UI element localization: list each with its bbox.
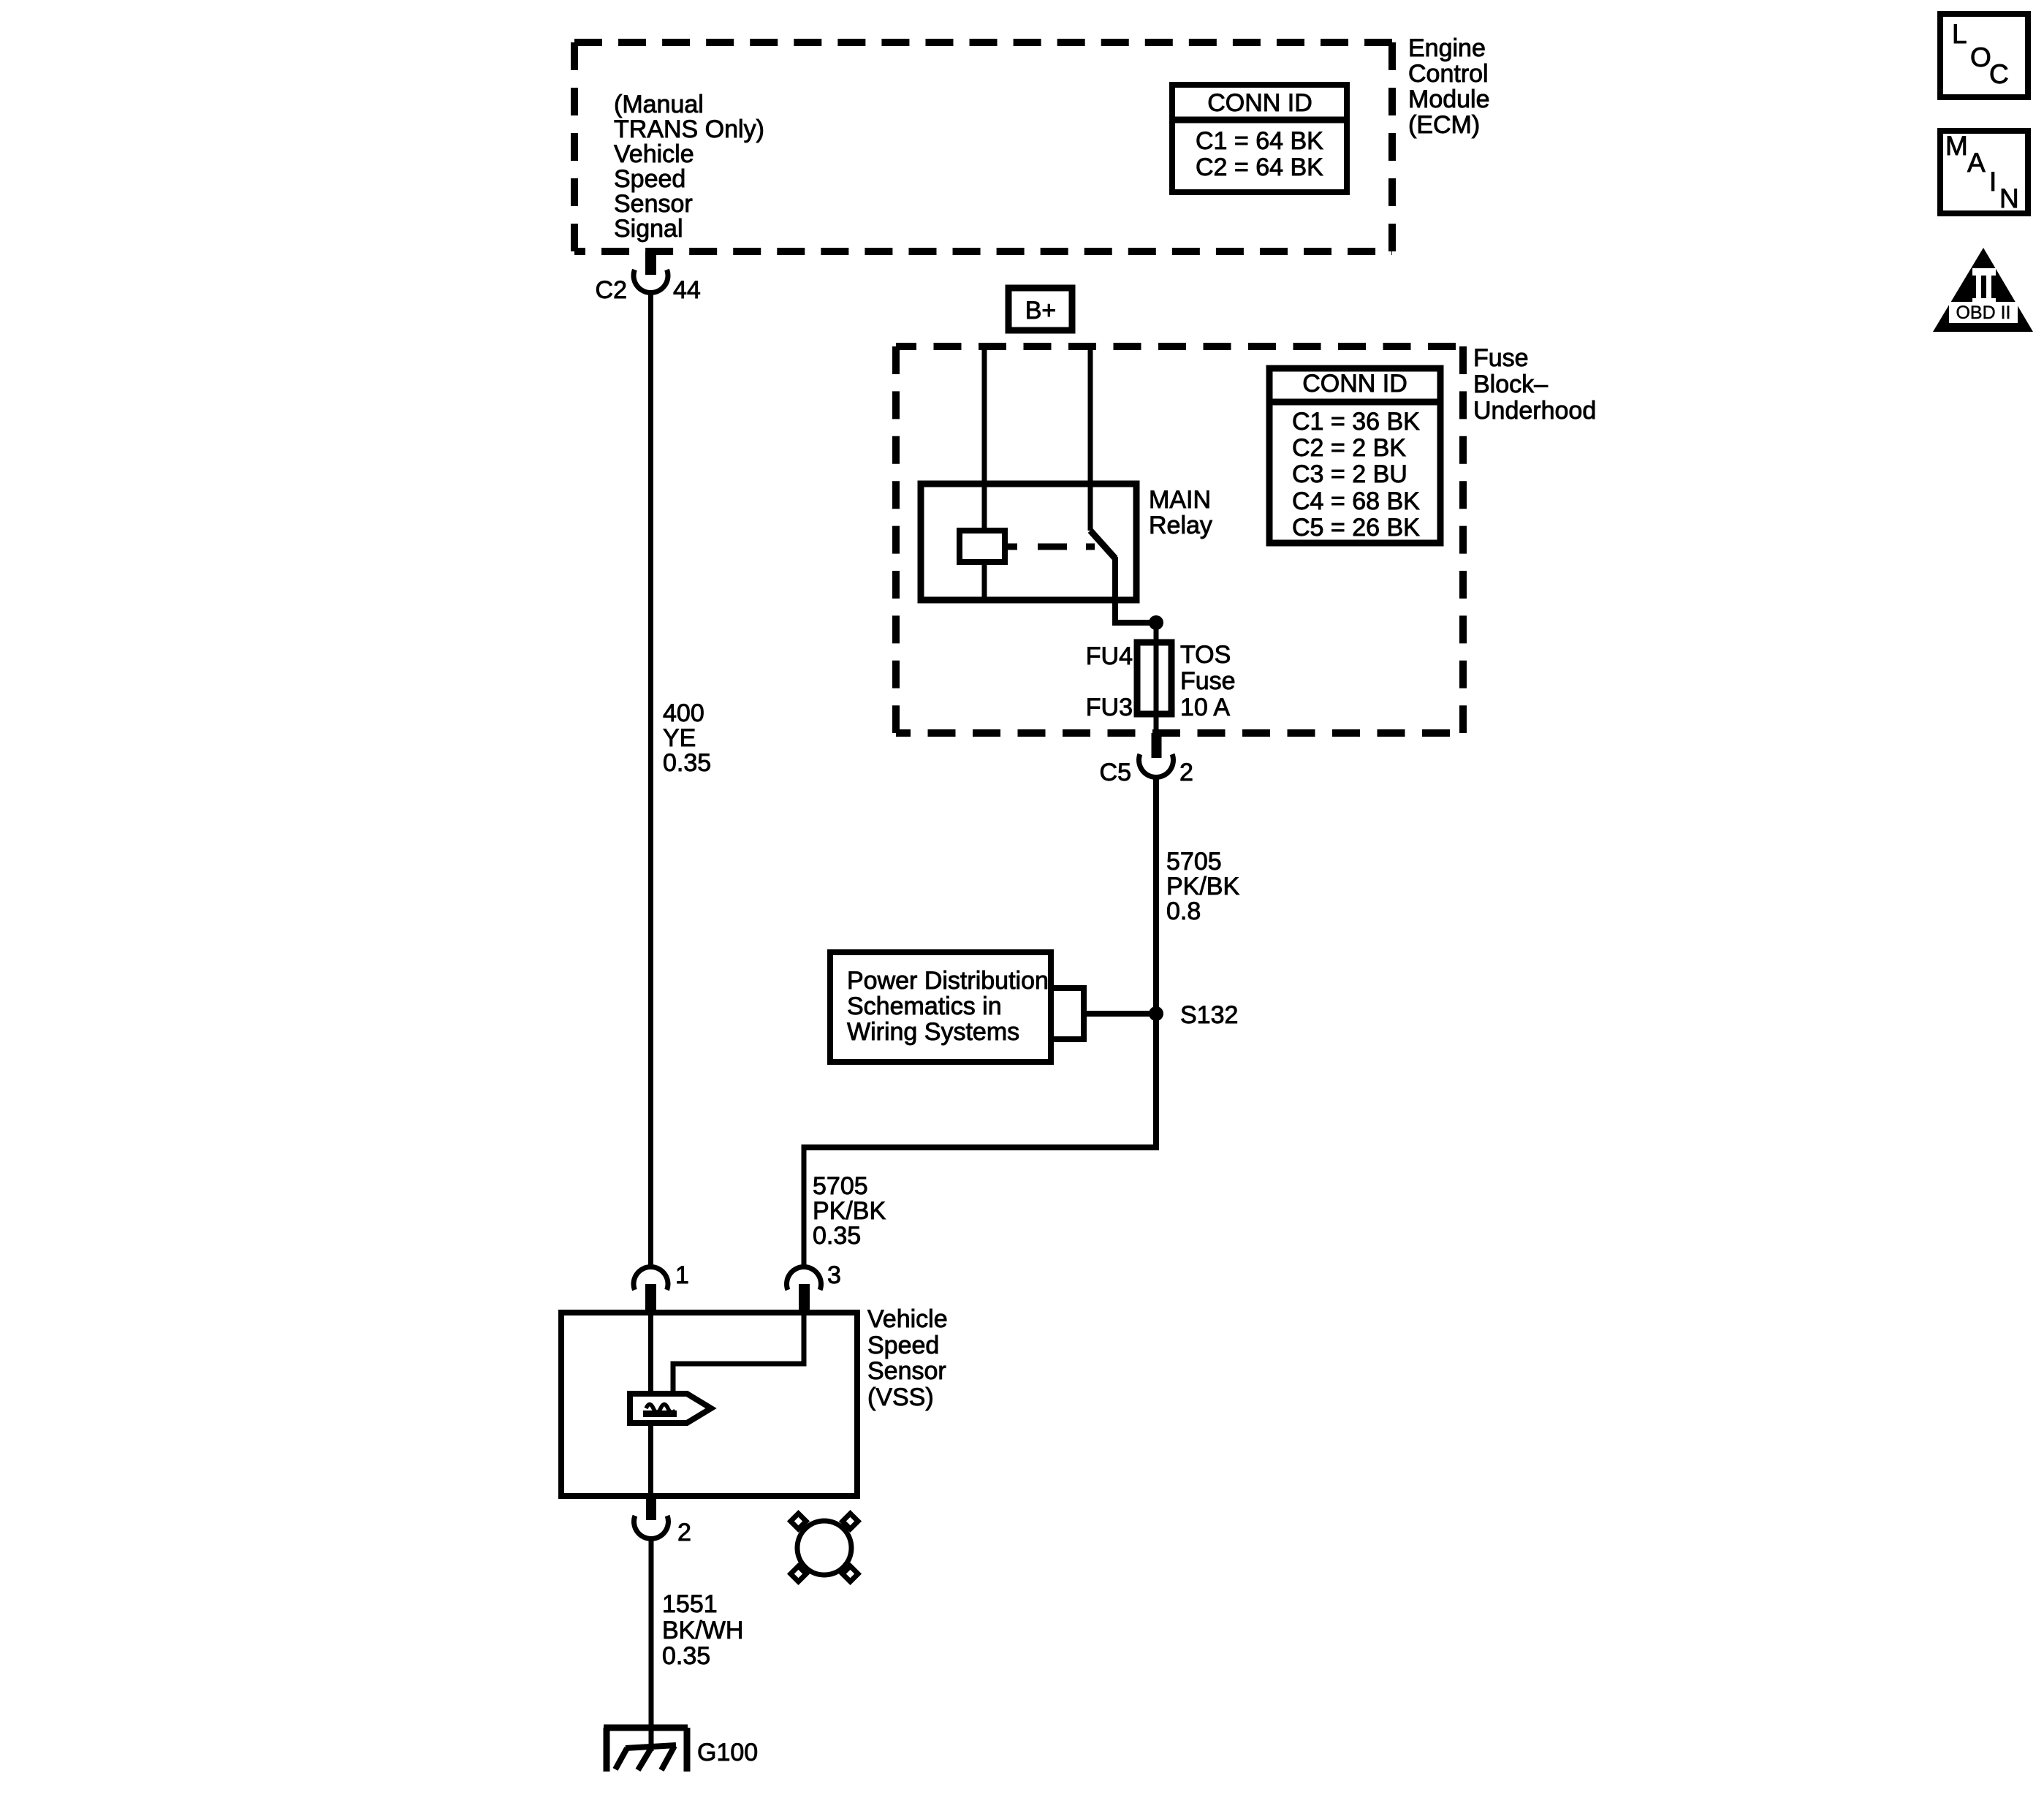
svg-text:BK/WH: BK/WH <box>662 1617 743 1644</box>
wire relay to fuse <box>1154 623 1159 733</box>
svg-text:O: O <box>1970 42 1991 72</box>
svg-text:1: 1 <box>675 1261 689 1289</box>
svg-text:C3 = 2 BU: C3 = 2 BU <box>1292 460 1407 488</box>
wire run to VSS pin 3 <box>802 1147 1160 1267</box>
svg-text:PK/BK: PK/BK <box>1166 873 1239 900</box>
svg-text:OBD II: OBD II <box>1956 303 2010 323</box>
svg-text:0.35: 0.35 <box>813 1222 861 1250</box>
svg-text:Module: Module <box>1408 86 1490 113</box>
svg-text:M: M <box>1945 131 1968 161</box>
svg-text:Control: Control <box>1408 60 1489 88</box>
relay linkage dashes <box>1005 544 1095 550</box>
svg-text:A: A <box>1967 148 1986 178</box>
svg-text:Schematics in: Schematics in <box>847 992 1002 1020</box>
LOC icon <box>1940 14 2028 97</box>
svg-text:N: N <box>1999 183 2019 213</box>
connector pin 1 <box>634 1261 689 1315</box>
svg-text:S132: S132 <box>1180 1001 1238 1029</box>
fuse labels FU4 FU3 <box>1086 642 1133 721</box>
wire B+ feed to relay switch side <box>1088 346 1093 531</box>
svg-text:C5: C5 <box>1100 759 1131 786</box>
svg-text:1551: 1551 <box>662 1590 718 1618</box>
svg-text:3: 3 <box>827 1261 841 1289</box>
wire 5705 PK/BK 0.8 <box>1153 776 1159 1147</box>
Power Distribution reference box <box>830 952 1051 1062</box>
svg-text:C2 = 64 BK: C2 = 64 BK <box>1196 153 1323 181</box>
svg-text:Speed: Speed <box>614 165 685 193</box>
svg-text:0.35: 0.35 <box>662 1642 710 1670</box>
svg-text:C1 = 64 BK: C1 = 64 BK <box>1196 127 1323 155</box>
wire B+ feed to relay coil side <box>982 346 987 484</box>
B+ power node <box>1008 288 1072 330</box>
svg-text:TOS: TOS <box>1180 641 1231 669</box>
wire label 5705 PK/BK 0.35 <box>813 1172 886 1250</box>
svg-text:2: 2 <box>1179 759 1193 786</box>
Fuse Block name label <box>1473 344 1596 425</box>
svg-text:C1 = 36 BK: C1 = 36 BK <box>1292 408 1420 436</box>
svg-text:C2: C2 <box>596 276 627 304</box>
Fuse Block dashed box <box>896 346 1463 733</box>
VSS internal wire to pin 2 <box>648 1423 653 1496</box>
svg-text:C: C <box>1989 59 2009 89</box>
wire label 400 YE 0.35 <box>663 699 711 777</box>
svg-text:Sensor: Sensor <box>867 1357 946 1385</box>
svg-text:400: 400 <box>663 699 704 727</box>
svg-text:YE: YE <box>663 724 696 752</box>
wire 1551 BK/WH <box>649 1539 654 1751</box>
svg-text:10 A: 10 A <box>1180 694 1230 721</box>
svg-text:0.8: 0.8 <box>1166 897 1201 925</box>
MAIN icon <box>1940 131 2028 213</box>
MAIN relay box <box>921 484 1136 600</box>
relay coil <box>960 484 1005 600</box>
junction node <box>1149 615 1163 630</box>
ECM module dashed box <box>574 42 1392 251</box>
svg-text:CONN ID: CONN ID <box>1207 89 1312 117</box>
reference bracket <box>1052 985 1156 1042</box>
svg-text:Signal: Signal <box>614 215 683 243</box>
svg-text:0.35: 0.35 <box>663 749 711 777</box>
fuse value label <box>1180 641 1236 721</box>
svg-text:L: L <box>1952 19 1967 49</box>
svg-text:Wiring Systems: Wiring Systems <box>847 1018 1019 1046</box>
svg-text:Speed: Speed <box>867 1332 939 1359</box>
svg-text:I: I <box>1989 167 1996 197</box>
svg-text:TRANS Only): TRANS Only) <box>614 115 764 143</box>
ground G100 <box>604 1728 758 1772</box>
svg-text:(VSS): (VSS) <box>867 1383 934 1411</box>
VSS box <box>561 1313 857 1496</box>
svg-text:Vehicle: Vehicle <box>867 1305 948 1333</box>
connector C2 pin 44 <box>596 251 701 304</box>
wire 400 YE <box>648 292 653 1267</box>
svg-text:44: 44 <box>673 276 701 304</box>
VSS internal wire pin3 <box>671 1313 807 1396</box>
wire label 1551 BK/WH 0.35 <box>662 1590 743 1670</box>
VSS internal wire pin1 <box>648 1313 653 1396</box>
svg-text:Sensor: Sensor <box>614 190 693 218</box>
OBD II icon <box>1933 248 2033 332</box>
svg-text:5705: 5705 <box>813 1172 868 1200</box>
svg-text:5705: 5705 <box>1166 848 1222 876</box>
svg-text:C2 = 2 BK: C2 = 2 BK <box>1292 434 1406 462</box>
svg-text:B+: B+ <box>1025 297 1057 324</box>
VSS name label <box>867 1305 948 1411</box>
svg-text:FU3: FU3 <box>1086 694 1133 721</box>
ECM CONN ID table <box>1172 85 1347 192</box>
svg-text:C4 = 68 BK: C4 = 68 BK <box>1292 487 1420 515</box>
wire label 5705 PK/BK 0.8 <box>1166 848 1239 925</box>
connector pin 3 <box>787 1261 841 1315</box>
svg-text:C5 = 26 BK: C5 = 26 BK <box>1292 514 1420 542</box>
relay switch blade <box>1090 531 1156 623</box>
svg-text:G100: G100 <box>697 1739 758 1766</box>
svg-text:Fuse: Fuse <box>1473 344 1529 372</box>
fuse block CONN ID table <box>1269 368 1440 543</box>
svg-text:Power Distribution: Power Distribution <box>847 967 1049 995</box>
splice S132 <box>1149 1001 1238 1029</box>
fuse TOS 10A <box>1137 642 1171 714</box>
connector C5 pin 2 <box>1100 733 1193 786</box>
svg-text:MAIN: MAIN <box>1149 486 1211 514</box>
MAIN relay label <box>1149 486 1212 539</box>
svg-text:Relay: Relay <box>1149 512 1212 539</box>
svg-text:(ECM): (ECM) <box>1408 111 1480 139</box>
svg-text:PK/BK: PK/BK <box>813 1197 886 1225</box>
svg-text:CONN ID: CONN ID <box>1302 370 1407 398</box>
gear icon <box>791 1514 858 1582</box>
svg-text:Engine: Engine <box>1408 34 1486 62</box>
svg-text:(Manual: (Manual <box>614 91 704 118</box>
svg-text:Vehicle: Vehicle <box>614 140 694 168</box>
connector pin 2 <box>634 1496 691 1546</box>
svg-text:Fuse: Fuse <box>1180 667 1236 695</box>
ECM signal label text <box>614 91 764 243</box>
speed sensor element <box>630 1394 711 1423</box>
svg-text:Underhood: Underhood <box>1473 397 1596 425</box>
svg-text:Block–: Block– <box>1473 371 1548 398</box>
ECM name label <box>1408 34 1490 139</box>
svg-text:2: 2 <box>677 1519 691 1546</box>
svg-text:FU4: FU4 <box>1086 642 1133 670</box>
